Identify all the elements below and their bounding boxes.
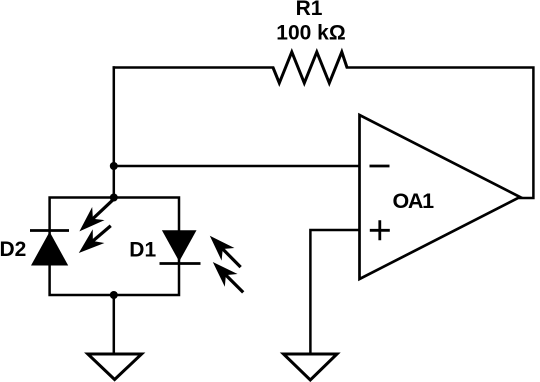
svg-text:R1: R1 (296, 0, 323, 20)
svg-text:100 kΩ: 100 kΩ (276, 22, 345, 45)
svg-text:D2: D2 (0, 238, 26, 261)
svg-text:OA1: OA1 (393, 189, 435, 213)
svg-text:D1: D1 (129, 238, 156, 261)
